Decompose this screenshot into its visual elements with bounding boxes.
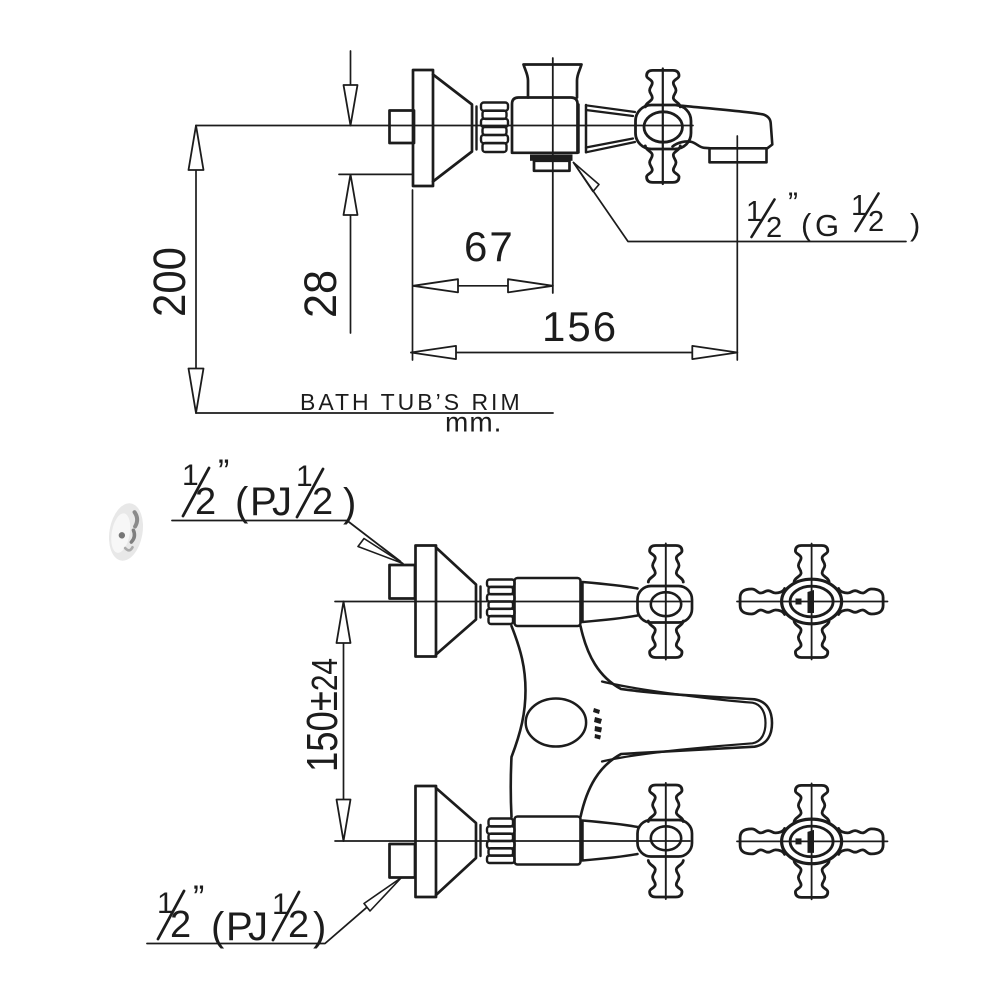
extension line right 156: [736, 136, 738, 360]
taper joint: [577, 105, 580, 153]
svg-text:J: J: [248, 905, 268, 949]
handle centerline: [665, 544, 667, 660]
svg-text:): ): [910, 207, 920, 242]
thread nut: [481, 103, 508, 153]
svg-text:156: 156: [542, 303, 618, 350]
svg-text:67: 67: [464, 223, 515, 270]
wall flange plate: [413, 70, 433, 186]
detached handle bottom: [737, 783, 888, 899]
svg-text:2: 2: [170, 904, 191, 946]
arrow right 156: [692, 346, 737, 359]
dimension 150±24 line: [343, 602, 345, 842]
inlet nipple: [390, 111, 415, 144]
centerline horizontal: [196, 125, 693, 127]
dimension 28 lower line: [350, 174, 352, 333]
dimension 156 line: [411, 352, 737, 354]
flange plate: [416, 546, 437, 657]
arm down: [794, 621, 829, 658]
svg-text:(: (: [235, 480, 249, 524]
arrow left 67: [413, 279, 458, 292]
bottom outlet band: [530, 155, 573, 161]
handle hub ellipse: [644, 112, 682, 142]
spout inner line: [602, 682, 766, 762]
leader arrowhead PJ top: [358, 539, 403, 564]
arrow down 150: [337, 800, 351, 842]
svg-text:1: 1: [296, 460, 313, 493]
arrow left 156: [411, 346, 456, 359]
svg-text:150±24: 150±24: [298, 658, 347, 772]
bottom outlet lip: [534, 161, 570, 171]
handle hub side view: [636, 105, 692, 149]
top valve group (plan): [335, 544, 692, 660]
leader line PJ bottom: [147, 880, 399, 944]
bottom valve group (plan, mirrored): [335, 783, 692, 899]
spout lip: [710, 148, 767, 162]
index dot: [796, 599, 802, 605]
label PJ 1/2 top: [182, 453, 356, 525]
svg-text:2: 2: [312, 481, 333, 523]
dimension 200 vertical line: [195, 126, 197, 414]
flange cone: [436, 548, 476, 655]
top outlet: [524, 65, 582, 98]
svg-text:28: 28: [295, 270, 346, 318]
extension line left 67/156: [412, 190, 414, 360]
svg-text:”: ”: [193, 879, 204, 917]
arrow down 28: [344, 85, 358, 126]
svg-text:): ): [313, 905, 326, 949]
svg-text:2: 2: [288, 904, 309, 946]
hub inner ellipse: [790, 586, 833, 617]
hub outer ellipse: [782, 579, 842, 624]
arm up: [794, 546, 829, 583]
body right / spout outline: [581, 626, 773, 817]
label PJ 1/2 bottom: [157, 879, 326, 949]
detached handle top: [737, 544, 888, 660]
arm right: [839, 589, 884, 615]
centerline vertical through body (67 extension): [552, 58, 554, 293]
flange cone: [433, 75, 472, 182]
svg-text:2: 2: [195, 481, 216, 523]
svg-text:”: ”: [218, 453, 229, 491]
svg-text:2: 2: [868, 206, 884, 238]
crosshair vertical: [811, 544, 813, 660]
label G 1/2: [746, 187, 920, 244]
arrow down 200: [189, 369, 204, 414]
bath tub rim line: [196, 412, 553, 414]
leader line PJ top: [172, 521, 401, 562]
dimension 67 line: [413, 285, 553, 287]
spout base ellipse: [526, 699, 586, 747]
extension line flange bottom: [339, 173, 413, 175]
watermark stamp: [105, 501, 148, 564]
main body blob with spout (plan): [511, 626, 526, 817]
svg-text:mm.: mm.: [445, 407, 502, 438]
hub inner ellipse: [651, 592, 681, 616]
svg-text:(: (: [211, 905, 225, 949]
arrow right 67: [508, 279, 553, 292]
arrow up 150: [337, 602, 351, 644]
crosshair horizontal: [737, 601, 888, 603]
svg-text:”: ”: [788, 187, 798, 220]
handle arm up: [648, 546, 683, 583]
handle skirt: [583, 582, 638, 622]
svg-text:(: (: [801, 207, 812, 242]
arrow up 200: [189, 126, 204, 171]
svg-text:J: J: [272, 480, 292, 524]
thread nut: [487, 580, 515, 625]
spout: [673, 105, 773, 148]
arrow up 28: [344, 174, 358, 215]
leader arrowhead G1/2: [574, 163, 600, 192]
index bar: [808, 590, 815, 613]
dimension 28 upper line: [350, 51, 352, 126]
taper cone: [586, 105, 635, 152]
svg-text:): ): [343, 481, 356, 525]
valve body: [512, 98, 578, 153]
handle centerline vertical: [662, 69, 664, 185]
handle arm down: [648, 621, 683, 658]
leader line G1/2: [574, 163, 907, 242]
handle hub: [638, 586, 693, 623]
leader arrowhead PJ bottom: [364, 878, 402, 912]
svg-text:200: 200: [144, 247, 195, 317]
svg-text:2: 2: [766, 212, 782, 244]
brand stamp marks: [593, 708, 602, 740]
svg-text:G: G: [815, 208, 839, 243]
centerline: [335, 601, 690, 603]
valve body cylinder: [515, 578, 581, 626]
handle arm down: [645, 146, 680, 183]
nipple (offset above center): [390, 565, 416, 599]
arm left: [740, 589, 785, 615]
handle arm up: [645, 70, 680, 107]
